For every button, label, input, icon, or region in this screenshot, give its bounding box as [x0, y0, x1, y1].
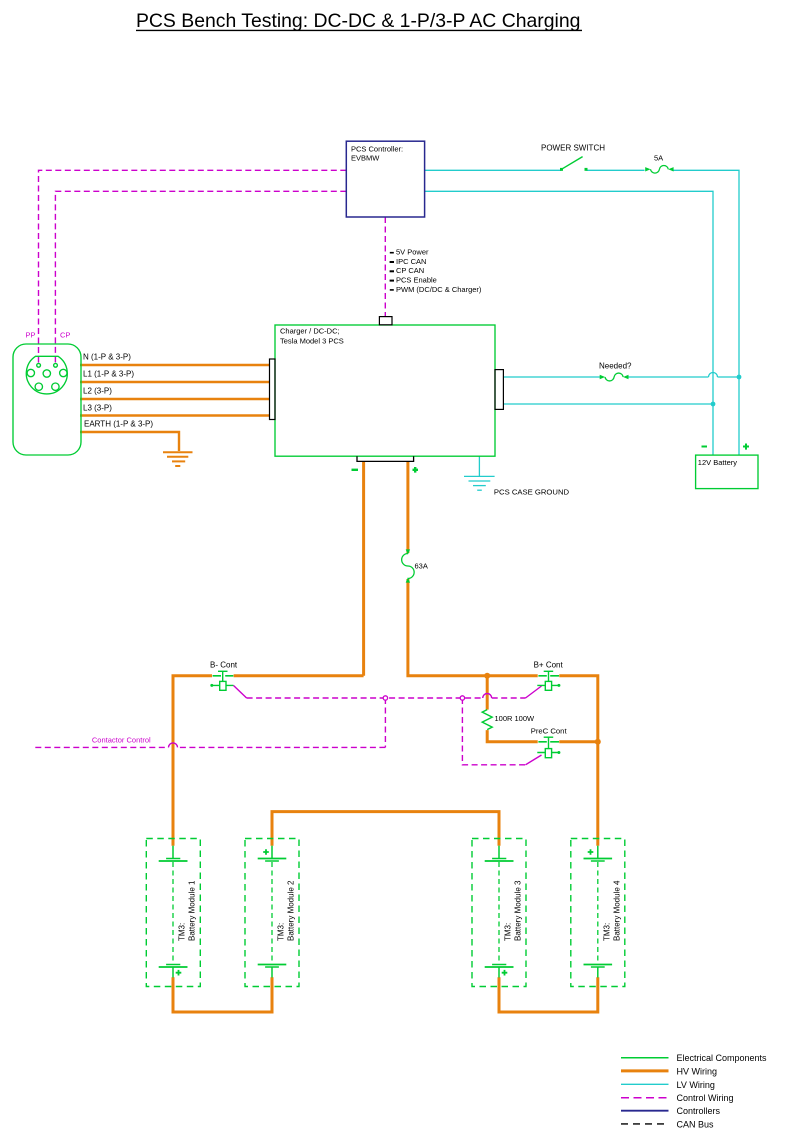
svg-text:L2 (3-P): L2 (3-P) — [83, 386, 112, 395]
wire AC L1 — [80, 381, 270, 383]
wire HV precharge branch (through 100R to PreC contactor) — [486, 676, 598, 742]
battery 12V — [696, 444, 758, 489]
label - charger dc minus — [352, 469, 359, 471]
title — [136, 10, 582, 32]
svg-text:Tesla Model 3 PCS: Tesla Model 3 PCS — [280, 336, 344, 345]
label + charger dc plus — [413, 467, 419, 473]
junction HV precharge tap — [484, 673, 490, 679]
legend LV wiring — [621, 1083, 669, 1085]
svg-text:N (1-P & 3-P): N (1-P & 3-P) — [83, 353, 131, 362]
svg-text:Charger / DC-DC;: Charger / DC-DC; — [280, 326, 340, 335]
junction LV at battery + line — [737, 375, 742, 380]
wire HV plus: charger + through 63A fuse to B+ contactor to module4 — [408, 462, 598, 846]
wire LV: charger pin1 to battery + (with Needed? fuse and crossover) — [503, 373, 739, 378]
svg-text:CP: CP — [60, 330, 70, 339]
svg-text:B- Cont: B- Cont — [210, 660, 238, 669]
svg-text:POWER SWITCH: POWER SWITCH — [541, 144, 605, 153]
box: charger / DC-DC Tesla PCS — [275, 325, 495, 456]
svg-text:PCS Controller:: PCS Controller: — [351, 144, 403, 153]
battery module 2 — [245, 839, 299, 987]
contactor B- Cont — [210, 671, 233, 690]
fuse F1 5A — [645, 165, 673, 173]
battery module 1 — [146, 839, 200, 987]
svg-text:100R 100W: 100R 100W — [495, 714, 536, 723]
svg-text:IPC CAN: IPC CAN — [396, 257, 426, 266]
svg-text:PWM (DC/DC & Charger): PWM (DC/DC & Charger) — [396, 285, 482, 294]
connector block: charger AC input — [270, 359, 276, 420]
fuse F2 Needed? — [600, 373, 629, 381]
connector tab: charger control header — [379, 317, 392, 325]
legend controllers — [621, 1110, 669, 1112]
wire LV positive: controller to switch, fuse, down to battery + — [425, 170, 739, 455]
battery module 3 — [472, 839, 526, 987]
wire AC EARTH — [80, 432, 179, 451]
legend CAN bus — [621, 1123, 669, 1125]
wire LV negative: controller to battery - — [425, 191, 713, 455]
op box: PCS controller U1 — [346, 141, 424, 217]
wire LV: charger pin2 to battery - — [503, 403, 713, 405]
wire control: B- coil drop to contactor control line — [384, 698, 386, 747]
svg-text:12V Battery: 12V Battery — [698, 458, 737, 467]
connector bracket: charger HV DC output — [357, 456, 414, 461]
wire AC N — [80, 364, 270, 366]
resistor R1 100R 100W — [482, 710, 492, 730]
wire control: PreC coil branch — [462, 698, 541, 765]
node control junction 2 — [460, 696, 464, 700]
svg-text:Electrical Components: Electrical Components — [677, 1053, 768, 1063]
wire HV module1-module2 bottom link — [172, 977, 274, 1012]
svg-text:L3 (3-P): L3 (3-P) — [83, 403, 112, 412]
fuse F3 63A — [402, 549, 415, 582]
connector EV inlet (Type 2) — [13, 344, 81, 455]
node control junction 1 — [383, 696, 387, 700]
wire HV module2-module3 top link — [271, 812, 501, 846]
wire control: contactor coil bus — [233, 685, 541, 698]
legend electrical components — [621, 1057, 669, 1059]
contactor B+ Cont — [537, 671, 560, 690]
svg-text:Needed?: Needed? — [599, 361, 632, 370]
contactor PreC Cont — [537, 737, 560, 757]
wire control: Contactor Control feed line — [35, 743, 385, 748]
svg-text:CAN Bus: CAN Bus — [677, 1119, 715, 1129]
wire CP control (connector pin CP to PCS controller) — [55, 191, 346, 363]
svg-text:Contactor Control: Contactor Control — [92, 735, 151, 744]
svg-text:PP: PP — [26, 330, 36, 339]
svg-text:LV Wiring: LV Wiring — [677, 1080, 715, 1090]
connector block: charger LV output — [495, 370, 503, 410]
legend control wiring — [621, 1097, 669, 1099]
wire controller-to-charger control bus — [384, 217, 386, 317]
svg-text:L1 (1-P & 3-P): L1 (1-P & 3-P) — [83, 370, 134, 379]
junction HV at PreC output — [595, 739, 601, 745]
svg-text:63A: 63A — [415, 561, 428, 570]
svg-text:Control Wiring: Control Wiring — [677, 1093, 734, 1103]
svg-text:CP CAN: CP CAN — [396, 266, 424, 275]
junction LV at battery - line — [711, 402, 716, 407]
wire HV module3-module4 bottom link — [498, 977, 600, 1012]
wire PP control (connector pin PP to PCS controller) — [39, 170, 347, 363]
svg-text:Controllers: Controllers — [677, 1106, 721, 1116]
svg-text:HV Wiring: HV Wiring — [677, 1066, 718, 1076]
LEGEND-LAYER — [621, 1053, 767, 1129]
ground earth (orange) — [163, 452, 193, 466]
svg-text:PCS Bench Testing: DC-DC & 1-P: PCS Bench Testing: DC-DC & 1-P/3-P AC Ch… — [136, 10, 580, 32]
labels controller signals — [390, 248, 482, 294]
legend HV wiring — [621, 1069, 669, 1072]
svg-text:PCS CASE GROUND: PCS CASE GROUND — [494, 487, 570, 496]
power switch S1 — [560, 157, 588, 171]
wire AC L3 — [80, 414, 270, 416]
svg-text:PreC Cont: PreC Cont — [531, 726, 568, 735]
battery module 4 — [571, 839, 625, 987]
wire AC L2 — [80, 398, 270, 400]
ground PCS case (cyan) — [464, 456, 495, 490]
svg-text:EARTH (1-P & 3-P): EARTH (1-P & 3-P) — [84, 420, 153, 429]
svg-text:B+ Cont: B+ Cont — [534, 660, 564, 669]
svg-text:5V Power: 5V Power — [396, 248, 429, 257]
svg-text:5A: 5A — [654, 154, 663, 163]
wire HV minus: charger - to B- contactor to module1 — [173, 462, 364, 846]
svg-text:EVBMW: EVBMW — [351, 153, 380, 162]
svg-text:PCS Enable: PCS Enable — [396, 276, 437, 285]
